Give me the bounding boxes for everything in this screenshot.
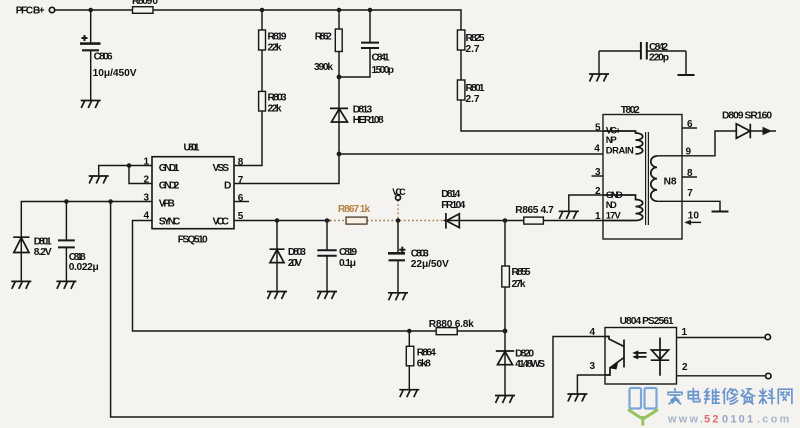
svg-text:10: 10	[688, 210, 700, 221]
svg-text:27k: 27k	[512, 279, 526, 290]
svg-text:22μ/50V: 22μ/50V	[411, 259, 449, 270]
svg-text:VCC: VCC	[392, 187, 406, 197]
svg-text:R880 6.8k: R880 6.8k	[429, 319, 474, 330]
svg-text:www.: www.	[667, 414, 705, 426]
svg-text:1: 1	[144, 156, 150, 167]
svg-text:22k: 22k	[268, 43, 282, 54]
svg-text:R867 1k: R867 1k	[338, 204, 370, 215]
svg-text:R825: R825	[466, 33, 485, 44]
svg-text:2: 2	[144, 174, 150, 185]
svg-text:D813: D813	[353, 104, 373, 115]
svg-text:6: 6	[687, 119, 693, 130]
svg-text:GND2: GND2	[159, 180, 180, 191]
svg-text:220p: 220p	[649, 53, 669, 64]
svg-text:0101: 0101	[722, 414, 755, 426]
svg-text:2.7: 2.7	[466, 94, 480, 105]
svg-text:2: 2	[595, 186, 601, 197]
svg-text:8: 8	[238, 157, 244, 168]
svg-text:DRAIN: DRAIN	[606, 144, 634, 155]
svg-text:10μ/450V: 10μ/450V	[93, 68, 137, 79]
svg-text:7: 7	[238, 175, 244, 186]
svg-text:D: D	[224, 180, 231, 191]
svg-text:N8: N8	[664, 177, 677, 188]
svg-text:VSS: VSS	[213, 163, 230, 174]
svg-text:U801: U801	[184, 143, 200, 154]
svg-text:.com: .com	[757, 414, 791, 426]
svg-text:7: 7	[687, 188, 693, 199]
svg-text:2: 2	[682, 362, 688, 373]
svg-text:0.022μ: 0.022μ	[69, 262, 99, 273]
svg-text:4: 4	[144, 210, 150, 221]
svg-text:D820: D820	[515, 348, 534, 359]
svg-text:R819: R819	[268, 32, 287, 43]
svg-text:FSQ510: FSQ510	[178, 234, 208, 245]
svg-text:D814: D814	[441, 189, 460, 200]
svg-text:390k: 390k	[314, 62, 333, 73]
svg-text:3: 3	[590, 361, 596, 372]
svg-text:C803: C803	[411, 248, 429, 259]
svg-text:R864: R864	[417, 348, 436, 359]
svg-text:1500p: 1500p	[372, 65, 395, 76]
svg-text:4: 4	[590, 327, 596, 338]
svg-text:R803: R803	[268, 93, 287, 104]
svg-text:NP: NP	[606, 134, 617, 145]
svg-text:R809 0: R809 0	[132, 0, 158, 7]
svg-text:17V: 17V	[606, 209, 622, 220]
svg-text:5: 5	[595, 122, 601, 133]
svg-text:R865 4.7: R865 4.7	[515, 205, 554, 216]
svg-text:52: 52	[704, 414, 721, 426]
svg-text:4: 4	[594, 143, 600, 154]
svg-text:D803: D803	[288, 247, 306, 258]
svg-text:PFC B+: PFC B+	[16, 5, 45, 16]
svg-text:2.7: 2.7	[466, 44, 480, 55]
svg-text:VFB: VFB	[159, 198, 175, 209]
svg-text:U804 PS2561: U804 PS2561	[620, 316, 674, 327]
svg-text:HER108: HER108	[353, 115, 384, 126]
svg-text:FR104: FR104	[441, 200, 465, 211]
svg-text:4148WS: 4148WS	[515, 359, 545, 370]
svg-text:6: 6	[238, 193, 244, 204]
svg-text:SYNC: SYNC	[159, 217, 181, 228]
svg-text:3: 3	[595, 167, 601, 178]
svg-text:0.1μ: 0.1μ	[339, 258, 356, 269]
svg-text:C819: C819	[339, 247, 357, 258]
svg-text:1: 1	[682, 327, 688, 338]
svg-text:T802: T802	[621, 105, 640, 116]
svg-text:1: 1	[595, 211, 601, 222]
svg-text:C806: C806	[94, 52, 113, 63]
svg-text:9: 9	[686, 146, 692, 157]
svg-text:R801: R801	[466, 83, 485, 94]
svg-text:3: 3	[144, 192, 150, 203]
svg-text:6k8: 6k8	[417, 359, 431, 370]
svg-text:GND1: GND1	[159, 163, 180, 174]
svg-text:R855: R855	[512, 267, 531, 278]
svg-text:5: 5	[238, 211, 244, 222]
svg-text:8.2V: 8.2V	[34, 247, 52, 258]
svg-text:8: 8	[687, 168, 693, 179]
svg-text:C841: C841	[372, 53, 390, 64]
svg-text:22k: 22k	[268, 104, 282, 115]
svg-text:C842: C842	[649, 42, 668, 53]
svg-text:D801: D801	[34, 237, 52, 248]
svg-text:20V: 20V	[288, 258, 302, 269]
svg-text:VCC: VCC	[213, 217, 230, 228]
svg-text:D809 SR160: D809 SR160	[722, 110, 772, 121]
svg-text:R862: R862	[315, 32, 332, 43]
